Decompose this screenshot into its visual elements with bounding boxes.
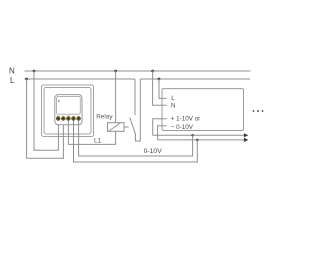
- terminal screw 5: [77, 117, 81, 121]
- wall box outer rect: [42, 85, 94, 137]
- terminal screw 1: [56, 117, 60, 121]
- junction dot on L at x159: [158, 78, 161, 81]
- wire device + (t5) to + rail: [79, 121, 193, 156]
- junction dot on N at x34: [33, 70, 36, 73]
- device terminal marking row: [57, 114, 79, 118]
- switch fixed contact left (L break left): [134, 79, 136, 115]
- wire N mains line: [25, 70, 251, 72]
- wire N to relay coil top: [115, 71, 117, 123]
- junction dot on L at x26.6: [25, 78, 28, 81]
- svg-text:L1: L1: [94, 138, 102, 145]
- relay coil diagonal: [109, 123, 121, 132]
- arrowhead - rail: [244, 138, 248, 142]
- driver box: [162, 89, 244, 131]
- device body outline: [55, 95, 82, 125]
- wire L drop to driver: [159, 79, 167, 98]
- switch right contact hook: [135, 79, 140, 141]
- svg-text:L: L: [171, 95, 175, 102]
- svg-text:L: L: [10, 76, 15, 85]
- wire N feed: N line down, under box, up to device terminal 1: [34, 71, 58, 150]
- wire O output down from terminal 3 to relay coil: [68, 121, 115, 145]
- svg-text:N: N: [9, 67, 15, 76]
- switch blade: [130, 118, 136, 135]
- arrowhead + rail: [244, 133, 248, 137]
- svg-text:− 0-10V: − 0-10V: [171, 124, 194, 131]
- wire + rail to arrow: [153, 134, 244, 136]
- wire plus stub: [153, 119, 167, 136]
- svg-text:0-10V: 0-10V: [144, 148, 163, 155]
- wire device - (t4) to - rail: [74, 121, 198, 162]
- wire - rail to arrow: [158, 139, 244, 141]
- junction dot on N at x115.6: [114, 70, 117, 73]
- svg-text:+ 1-10V or: + 1-10V or: [171, 115, 201, 122]
- device front face: [57, 96, 81, 114]
- terminal screw 2: [61, 117, 65, 121]
- relay coil rect: [108, 123, 125, 132]
- terminal screw 3: [67, 117, 71, 121]
- ellipsis more drivers: [253, 110, 255, 112]
- wire L mains line left segment: [25, 78, 135, 80]
- terminal screw 4: [72, 117, 76, 121]
- junction dot on N at x152.6: [151, 70, 154, 73]
- svg-text:Relay: Relay: [96, 114, 113, 121]
- svg-text:N: N: [171, 103, 176, 110]
- junction dot + rail: [191, 134, 194, 137]
- relay actuator tick: [124, 126, 129, 128]
- device button dot: [58, 100, 60, 102]
- wire L mains line right segment: [140, 78, 250, 80]
- junction dot - rail: [196, 139, 199, 142]
- wire N drop to driver: [153, 71, 167, 105]
- wall box inner rect: [44, 88, 91, 135]
- wire L feed: L line down, under box, up to device terminal 2: [27, 79, 64, 158]
- wire coil bottom riser: [115, 131, 117, 144]
- wire minus stub: [158, 126, 167, 140]
